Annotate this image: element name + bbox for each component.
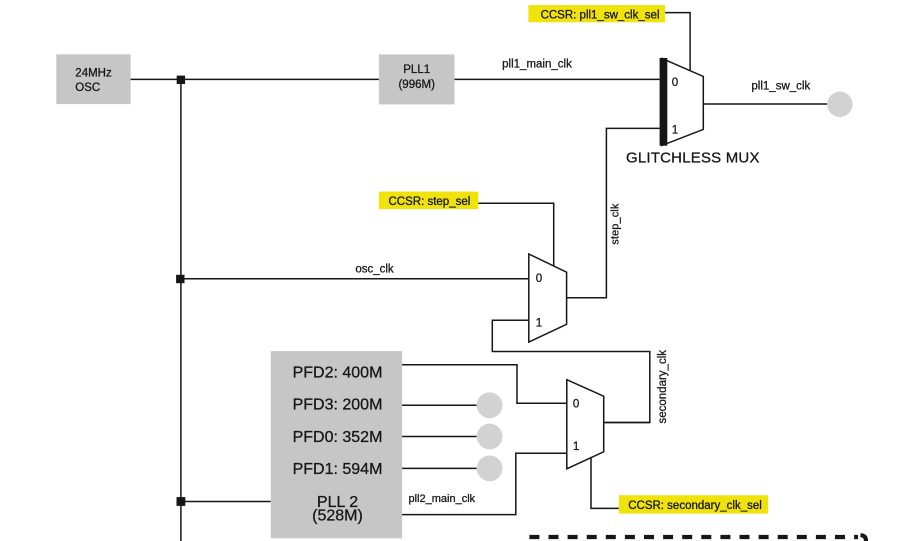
svg-text:24MHz: 24MHz [75,68,112,80]
wire pll2_main_clk from PLL2 to secondary mux input 1 [402,453,567,514]
svg-text:PFD0: 352M: PFD0: 352M [293,429,383,446]
terminal pad PFD1 [477,456,503,482]
wire select step_sel to step mux [478,203,553,266]
junction at OSC output [177,76,185,84]
dashed boundary line [529,535,858,539]
wire PFD3 output stub [402,404,477,406]
svg-text:pll2_main_clk: pll2_main_clk [409,493,476,505]
wire pll1_sw_clk output [703,103,827,105]
terminal pad PFD0 [477,424,503,450]
wire select secondary_clk_sel from secondary mux [591,458,619,509]
svg-text:(996M): (996M) [398,79,435,91]
glitchless mux U1 body [662,58,703,145]
svg-text:PFD1: 594M: PFD1: 594M [293,461,383,478]
wire select pll1_sw_clk_sel to glitchless mux [665,13,690,71]
wire vertical trunk from OSC junction down to bottom [180,79,182,541]
terminal pad pll1_sw_clk [827,92,852,117]
PLL2 / PFD block [271,351,402,538]
step mux U2 body [529,254,567,342]
wire osc_clk from trunk to step mux input 0 [181,278,529,280]
svg-text:CCSR: secondary_clk_sel: CCSR: secondary_clk_sel [628,500,762,512]
register label CCSR: pll1_sw_clk_sel [528,5,665,22]
wire trunk to PLL2 input [181,501,271,503]
register label CCSR: step_sel [379,192,479,210]
wire secondary_clk feedback from secondary mux output to step mux input 1 [492,320,650,422]
svg-text:osc_clk: osc_clk [355,263,394,275]
svg-text:0: 0 [573,398,579,410]
svg-text:pll1_sw_clk: pll1_sw_clk [751,80,810,92]
svg-text:0: 0 [672,77,678,89]
oscillator block OSC (24MHz) [56,54,130,104]
svg-text:pll1_main_clk: pll1_main_clk [502,59,572,71]
svg-text:OSC: OSC [75,82,100,94]
wire pll1_main_clk from PLL1 to glitchless mux input 0 [455,78,660,80]
svg-text:PFD3: 200M: PFD3: 200M [293,397,383,414]
svg-text:1: 1 [672,125,678,137]
glitchless mux thick input bar [660,58,668,146]
wire PFD1 output stub [402,467,477,469]
junction PLL2 input tap [177,497,186,506]
svg-text:PFD2: 400M: PFD2: 400M [293,365,383,382]
wire step_clk from step mux output up to glitchless mux input 1 [567,128,660,297]
svg-text:CCSR: step_sel: CCSR: step_sel [388,196,470,208]
svg-text:CCSR: pll1_sw_clk_sel: CCSR: pll1_sw_clk_sel [541,10,660,22]
svg-text:1: 1 [536,318,542,330]
junction osc_clk tap [176,275,184,283]
svg-text:1: 1 [573,441,579,453]
svg-text:GLITCHLESS MUX: GLITCHLESS MUX [626,149,760,166]
terminal pad PFD3 [477,392,503,418]
svg-text:0: 0 [536,273,542,285]
wire secondary mux output to feedback corner [604,422,650,424]
register label CCSR: secondary_clk_sel [619,495,768,513]
svg-text:PLL1: PLL1 [403,64,430,76]
svg-text:secondary_clk: secondary_clk [657,350,669,424]
wire OSC output to PLL1 input [131,78,379,80]
svg-text:(528M): (528M) [312,508,363,525]
secondary mux U3 body [567,380,604,469]
wire PFD2 output to secondary mux input 0 [402,365,567,404]
dashed boundary corner piece [861,535,866,541]
PLL1 block (996M) [379,54,455,104]
svg-text:step_clk: step_clk [610,203,622,245]
wire PFD0 output stub [402,436,477,438]
